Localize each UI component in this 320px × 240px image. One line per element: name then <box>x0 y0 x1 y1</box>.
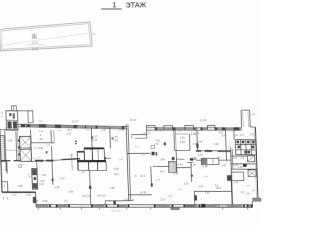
wall x176.4 low <box>175 150 178 172</box>
corridor wall left d <box>61 158 79 161</box>
duct band outline <box>32 168 38 189</box>
dark seg y150.8 right <box>218 150 231 152</box>
svg-text:ЭТАЖ: ЭТАЖ <box>125 0 146 9</box>
stub wall x103.8 <box>104 201 106 205</box>
wall y200.8 <box>105 199 133 202</box>
stair tread 8 <box>1 151 5 153</box>
pod room 2 <box>84 149 92 161</box>
window jamb top left 2 <box>26 124 30 127</box>
duct dark top <box>32 169 37 175</box>
stair flight mid <box>168 162 176 173</box>
stair tread 7 <box>1 149 5 151</box>
window glazing bottom 2 <box>57 205 67 207</box>
elevator shaft divider b <box>20 148 31 150</box>
door tick x89.2 <box>89 186 92 189</box>
window jamb bottom 2 <box>56 204 58 207</box>
window jamb top right 1 <box>155 127 157 130</box>
pods right stub <box>106 157 111 159</box>
core wall x16.9 <box>16 132 17 161</box>
svg-text:14.6 (5): 14.6 (5) <box>97 195 106 198</box>
svg-text:4.75: 4.75 <box>178 164 184 167</box>
svg-text:1.26: 1.26 <box>234 181 239 184</box>
svg-text:1.98: 1.98 <box>110 187 116 190</box>
window glazing bottom 6 <box>185 205 198 207</box>
svg-text:1.25: 1.25 <box>233 134 238 137</box>
section wall b <box>128 124 131 200</box>
window jamb top left 3 <box>39 124 47 128</box>
svg-text:14.18: 14.18 <box>140 191 147 194</box>
window glazing top left 4 <box>77 126 85 128</box>
core wall x18.5 <box>17 132 18 161</box>
window jamb top left 7 <box>95 125 97 128</box>
wall x6.8 low <box>7 182 9 193</box>
recess wall y138.2 <box>135 137 147 139</box>
window glazing top left 6 <box>98 126 122 129</box>
svg-text:25.6: 25.6 <box>216 187 222 190</box>
svg-text:2.03: 2.03 <box>0 112 4 114</box>
svg-text:1.08: 1.08 <box>26 194 32 197</box>
window glazing bottom 5 <box>156 205 171 208</box>
top wall pier 3 <box>185 125 194 130</box>
svg-text:2.п: 2.п <box>38 157 41 159</box>
pod room 5 <box>88 162 97 171</box>
tick x190.9 <box>191 175 193 177</box>
wall y153.4 <box>127 152 150 155</box>
svg-text:1.10: 1.10 <box>60 177 66 180</box>
door mark x110.9 <box>112 137 114 139</box>
vent box div 1 <box>206 158 208 164</box>
sink blob <box>152 152 155 156</box>
svg-text:2.6: 2.6 <box>246 186 250 188</box>
elevator diag 1b <box>20 137 30 147</box>
wall x234.9 <box>233 127 235 139</box>
wall x230.4 low <box>230 180 233 204</box>
jamb dark x112.9 <box>113 201 115 205</box>
wall y191.4 <box>194 191 232 192</box>
corridor wall dark seg 1 <box>35 160 43 162</box>
entry steps right <box>260 198 262 201</box>
stair tread 1 <box>0 136 4 138</box>
site glyph stroke 3 <box>35 34 37 37</box>
svg-text:1.05: 1.05 <box>119 159 124 161</box>
axis tick below wall 6 <box>150 207 152 209</box>
axis tick below wall 4 <box>98 207 100 209</box>
left below tick b <box>6 197 8 200</box>
right edge inner <box>254 128 256 198</box>
core box divider <box>6 119 18 121</box>
core dark cell 2 <box>13 121 17 128</box>
chimney divider <box>13 106 15 111</box>
svg-text:5.05: 5.05 <box>203 176 208 178</box>
pod room 3 divider <box>97 149 99 161</box>
stair cluster frame <box>235 139 256 155</box>
svg-text:1.5: 1.5 <box>252 189 256 192</box>
stair cluster dark cell 4 <box>252 141 255 144</box>
site glyph stroke 1 <box>32 34 34 37</box>
recess wall y134.6 <box>132 133 147 136</box>
svg-text:2.03: 2.03 <box>178 189 183 191</box>
axis tick below wall 7 <box>222 207 224 209</box>
elevator shaft divider a <box>20 147 31 149</box>
door mark x92.5 <box>91 136 93 139</box>
corridor wall left b <box>14 160 21 162</box>
stair cluster dark cell 5 <box>238 146 241 149</box>
outer right edge <box>255 127 257 198</box>
right wall x232.6 <box>231 149 234 169</box>
door mark mid <box>164 142 166 145</box>
axis tick below wall 5 <box>126 207 128 209</box>
window jamb top right 7 <box>234 127 240 130</box>
svg-text:5.05: 5.05 <box>222 134 227 137</box>
svg-text:2.87: 2.87 <box>221 164 227 167</box>
room wall x92.5 <box>90 127 93 148</box>
stair cluster row 2 <box>236 149 257 152</box>
pod room 1 <box>77 152 84 161</box>
top wall pier 1 <box>147 125 156 130</box>
wall x193.2 <box>193 191 195 204</box>
site fold line <box>1 33 89 45</box>
svg-text:1.95: 1.95 <box>251 114 256 116</box>
duct stub <box>36 161 38 169</box>
svg-text:2.2: 2.2 <box>92 33 96 36</box>
window jamb bottom 11 <box>199 204 201 207</box>
wall y169.2 <box>231 168 257 171</box>
dark seg y150.8 left <box>196 150 201 152</box>
pod room 6 <box>97 162 106 171</box>
svg-text:2.25: 2.25 <box>250 134 255 136</box>
stair wall x5.9 upper <box>5 129 6 171</box>
svg-text:2.10: 2.10 <box>174 173 179 176</box>
svg-text:9.96: 9.96 <box>180 140 186 144</box>
window jamb bottom 15 <box>247 204 249 207</box>
left below tick a <box>2 197 4 200</box>
svg-text:5.98: 5.98 <box>43 200 48 203</box>
pod left wall <box>77 161 79 170</box>
window jamb bottom 6 <box>117 204 119 207</box>
wall x6.8 mid <box>6 161 8 174</box>
svg-text:14.4 (5): 14.4 (5) <box>82 195 91 198</box>
duct mid square <box>34 177 36 180</box>
elevator door jamb 3 <box>18 153 20 155</box>
wall link room1 <box>29 143 31 145</box>
top wall pier 4 <box>207 125 215 130</box>
svg-text:1: 1 <box>40 133 42 137</box>
svg-text:5.п: 5.п <box>64 200 68 203</box>
window jamb top left 4 <box>55 124 61 128</box>
stair cluster col 3 <box>250 140 253 155</box>
window glazing top right 4 <box>215 128 222 130</box>
wall y194.8 <box>129 193 152 196</box>
stair flight diag r <box>248 156 254 161</box>
svg-text:3.03: 3.03 <box>160 198 166 201</box>
wall y163.9 <box>231 162 257 165</box>
svg-text:2.09: 2.09 <box>192 157 197 160</box>
svg-text:3.30: 3.30 <box>180 136 186 140</box>
elevator shaft box <box>19 136 31 161</box>
site outline inner <box>1 24 91 50</box>
entry steps bottom <box>252 200 261 202</box>
vent box hatch <box>201 159 206 165</box>
stair tread 10 <box>1 155 5 157</box>
axis tick below wall 1 <box>37 207 39 209</box>
svg-text:5.6: 5.6 <box>241 191 245 194</box>
svg-text:2.94: 2.94 <box>119 129 124 132</box>
entry steps fill <box>252 198 260 201</box>
svg-text:1.97: 1.97 <box>198 185 204 188</box>
window jamb top left 6 <box>85 125 87 128</box>
door dark mid <box>172 157 175 160</box>
stair cluster col 2 <box>245 140 248 155</box>
window jamb top left 8 <box>122 126 125 129</box>
left bottom riser <box>35 192 38 207</box>
window jamb top left 5 <box>73 125 77 128</box>
svg-text:1.40: 1.40 <box>196 130 201 132</box>
window jamb bottom 5 <box>106 204 108 207</box>
window glazing bottom 1 <box>37 205 49 207</box>
svg-text:0.98: 0.98 <box>68 190 74 193</box>
stair mid tread 3 <box>171 162 173 173</box>
stair tread 3 <box>0 141 4 143</box>
window glazing bottom 8 <box>228 205 242 207</box>
tower inner left <box>242 112 245 127</box>
svg-text:2.05: 2.05 <box>46 145 51 147</box>
room mid bottom <box>175 149 190 152</box>
staircase well <box>0 136 5 162</box>
jamb y159.2 <box>190 158 193 161</box>
stair cluster dark cell 7 <box>252 146 255 149</box>
svg-text:2.20: 2.20 <box>92 139 98 142</box>
wall pair x176.4 <box>174 130 177 151</box>
site outline outer <box>0 22 92 51</box>
stair tread 4 <box>0 143 4 145</box>
svg-text:1.98: 1.98 <box>156 180 161 182</box>
room mid right <box>188 134 191 150</box>
entrance tab <box>171 207 179 210</box>
vent long box <box>201 158 219 165</box>
stair cluster dark cell 8 <box>247 151 250 154</box>
tick pair b <box>75 143 77 144</box>
door tick x150.6 <box>151 183 153 186</box>
wall y160.3 right a <box>196 159 201 161</box>
wall y150.8 b <box>227 150 231 152</box>
entry corner drop <box>251 201 253 207</box>
window jamb bottom 14 <box>243 204 245 207</box>
title underline <box>101 8 122 11</box>
window jamb top right 4 <box>200 127 202 130</box>
pod room 4 <box>78 162 89 171</box>
stair cluster dark cell 6 <box>244 151 247 154</box>
window glazing top right 5 <box>225 128 234 130</box>
sink blob b <box>156 152 158 156</box>
small dark rect r <box>227 175 232 181</box>
svg-text:1: 1 <box>112 0 116 9</box>
room1 left wall <box>30 130 32 143</box>
corridor wall dark seg 2 <box>46 160 54 162</box>
svg-text:3.49: 3.49 <box>160 158 165 161</box>
jamb x193.2 <box>195 195 197 200</box>
stair mid tread 2 <box>170 162 172 173</box>
svg-text:0.71: 0.71 <box>240 135 245 137</box>
right wall x231 <box>231 148 233 205</box>
site glyph stroke 2 <box>33 33 35 38</box>
big jamb bottom x200 <box>201 204 205 208</box>
bottom wall outer <box>36 203 252 211</box>
door tick x52 <box>52 178 54 181</box>
window jamb top right 6 <box>222 127 225 130</box>
section wall a <box>126 124 129 200</box>
stair x diag 2 <box>248 170 255 176</box>
duct dark bottom <box>33 183 37 189</box>
top wall inner line right block <box>147 128 242 131</box>
stair tread 12 <box>1 159 5 161</box>
window jamb bottom 10 <box>183 204 185 207</box>
tower left side <box>240 110 243 127</box>
window jamb bottom 1 <box>49 204 51 207</box>
shaft box <box>28 111 33 123</box>
window jamb bottom 13 <box>226 204 228 207</box>
pods top wall a <box>84 147 104 150</box>
axis tick below wall 3 <box>80 207 82 209</box>
elevator door jamb 1 <box>18 139 20 141</box>
window jamb top left 1 <box>21 124 26 127</box>
svg-text:4.99: 4.99 <box>114 167 120 171</box>
window glazing bottom 3 <box>93 205 105 207</box>
svg-text:40.2: 40.2 <box>114 172 120 176</box>
wc glyph b <box>13 113 15 118</box>
pods top wall b <box>77 151 84 153</box>
window jamb bottom 16 <box>251 204 253 207</box>
svg-text:2.4: 2.4 <box>81 171 85 174</box>
tick pair a <box>75 140 77 142</box>
svg-text:1.45: 1.45 <box>39 183 44 186</box>
pods bottom dark wall <box>77 160 106 161</box>
svg-text:3.60 2.80: 3.60 2.80 <box>111 211 121 213</box>
stair tread 11 <box>1 157 5 159</box>
tower inner right <box>247 112 250 127</box>
core top wall <box>17 110 28 112</box>
room 0.94 divider <box>6 149 17 151</box>
wall y166.3 <box>153 165 169 168</box>
wall x190.9 <box>190 162 193 182</box>
window jamb bottom 12 <box>218 204 220 207</box>
kitchen glyph <box>19 165 22 168</box>
svg-text:6.09: 6.09 <box>18 193 23 195</box>
window glazing top right 6 <box>239 128 241 130</box>
corridor wall left a <box>1 160 11 162</box>
room mid top <box>176 133 190 135</box>
svg-text:2П: 2П <box>39 138 42 141</box>
svg-text:2.03: 2.03 <box>184 182 190 185</box>
svg-text:1.08: 1.08 <box>41 174 47 177</box>
dark seg bottom 184-193 <box>186 205 195 207</box>
svg-text:0.32: 0.32 <box>146 133 151 135</box>
room wall x110.9 <box>109 127 112 148</box>
stair cluster dark cell 2 <box>242 141 245 144</box>
recess stub x147.7 <box>146 130 148 139</box>
svg-text:0.76: 0.76 <box>124 199 129 202</box>
stair tread 9 <box>1 153 5 155</box>
svg-text:0.99: 0.99 <box>39 121 44 123</box>
stair flight box r <box>247 156 254 162</box>
bottom gap light fill <box>219 205 228 207</box>
window glazing top left 5 <box>86 126 95 128</box>
duct bottom dark corner <box>33 197 36 203</box>
jamb on x197.9 <box>196 143 198 148</box>
window jamb bottom 9 <box>172 204 174 207</box>
elevator diag 2a <box>21 150 31 161</box>
window glazing top left 2 <box>46 125 55 127</box>
room1 bottom wall <box>31 141 54 144</box>
wall y160.3 right b <box>219 159 231 161</box>
window glazing top left 1 <box>30 125 39 127</box>
svg-text:1.2: 1.2 <box>228 147 232 149</box>
corridor wall left c <box>32 160 62 162</box>
stair cluster col 1 <box>240 140 243 155</box>
top wall outer line right block <box>147 126 242 129</box>
svg-text:2.55: 2.55 <box>54 185 60 189</box>
svg-text:0.94: 0.94 <box>7 139 13 143</box>
svg-text:1.70: 1.70 <box>66 133 71 135</box>
bottom wall inner <box>36 201 252 209</box>
top wall pier 2 <box>164 125 173 130</box>
dark rect right <box>243 164 247 167</box>
svg-text:2.23: 2.23 <box>12 194 18 197</box>
core box <box>6 111 18 131</box>
window glazing bottom 9 <box>248 205 252 207</box>
stair mid tread 5 <box>174 162 176 173</box>
svg-text:2.71: 2.71 <box>147 131 152 133</box>
window glazing bottom 4 <box>119 205 127 207</box>
wall x226.5 <box>225 127 226 161</box>
window glazing top left 3 <box>61 125 73 127</box>
svg-text:2.0: 2.0 <box>246 193 250 195</box>
svg-text:1.48: 1.48 <box>31 158 36 160</box>
svg-text:3.18: 3.18 <box>135 146 140 148</box>
svg-text:1.71: 1.71 <box>130 199 135 202</box>
site dim line <box>25 44 43 47</box>
window jamb bottom 4 <box>91 204 93 207</box>
core dark cell 1 <box>7 121 11 128</box>
window jamb top right 5 <box>215 127 217 130</box>
axis tick below wall 8 <box>247 207 249 209</box>
pods stub tick <box>105 157 107 159</box>
site glyph base <box>32 37 38 39</box>
svg-text:1.71: 1.71 <box>0 116 4 118</box>
wall x52 lower <box>52 146 53 185</box>
elevator diag 1a <box>20 137 30 147</box>
apartment wall x89.2 <box>90 170 91 205</box>
room2 glyph <box>46 151 48 153</box>
svg-text:16.30: 16.30 <box>199 118 206 122</box>
svg-text:о: о <box>4 185 6 188</box>
left bottom wall <box>2 192 36 193</box>
svg-text:2.40: 2.40 <box>233 157 238 160</box>
stair mid tread 1 <box>168 162 170 173</box>
svg-text:6.48: 6.48 <box>203 165 209 168</box>
stair x diag 1 <box>248 170 256 176</box>
wall y159.2 a <box>176 158 184 160</box>
tower top <box>241 109 250 111</box>
svg-text:2.96: 2.96 <box>101 129 106 132</box>
stair mid tread 4 <box>173 162 175 173</box>
window jamb top right 2 <box>173 127 176 130</box>
outer top right segment <box>250 126 255 128</box>
tower right side <box>249 110 252 127</box>
svg-text:2.6: 2.6 <box>241 158 245 160</box>
svg-text:1.45: 1.45 <box>57 130 62 132</box>
window jamb bottom 3 <box>68 204 70 207</box>
window glazing top right 3 <box>203 128 208 130</box>
